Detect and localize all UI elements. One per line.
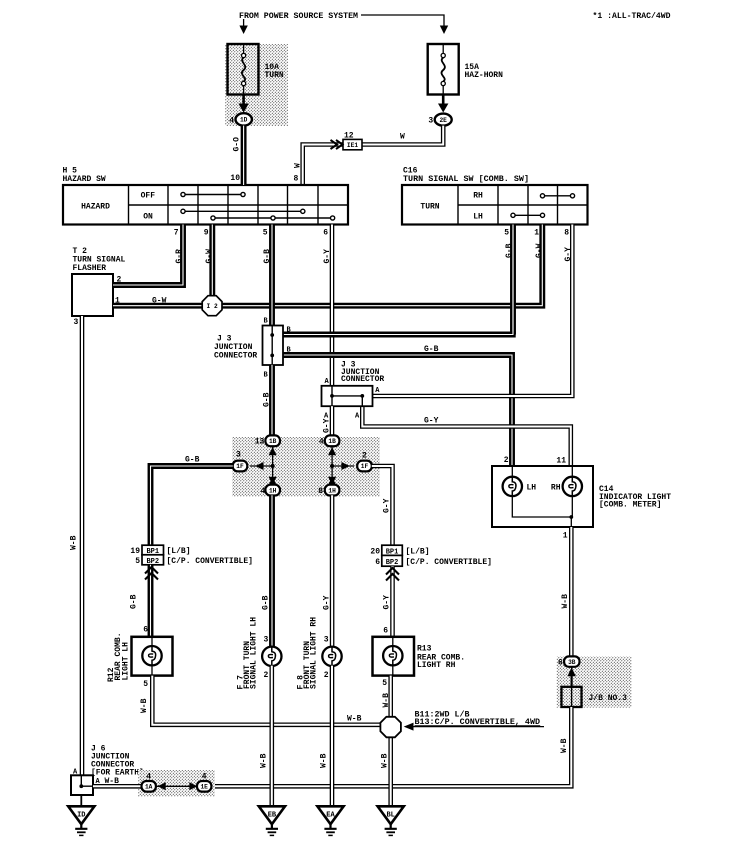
junction connector J3 no1: [263, 326, 284, 366]
svg-text:[FOR EARTH]: [FOR EARTH]: [91, 768, 144, 777]
svg-text:BL: BL: [386, 812, 394, 820]
wire W-B F7 pin2 to ground EB: [269, 666, 274, 806]
svg-text:3: 3: [236, 451, 241, 460]
svg-text:G-Y: G-Y: [383, 498, 392, 513]
svg-text:G-Y: G-Y: [323, 418, 332, 433]
svg-text:3B: 3B: [568, 659, 576, 666]
svg-text:2: 2: [324, 671, 329, 680]
svg-text:2: 2: [504, 456, 509, 465]
svg-text:CONNECTOR: CONNECTOR: [214, 352, 257, 361]
wire G-B J3 lower output to C14 pin2: [283, 355, 512, 466]
C16 RH contacts: [543, 195, 573, 197]
svg-text:W-B: W-B: [140, 698, 149, 713]
svg-text:*1 :ALL-TRAC/4WD: *1 :ALL-TRAC/4WD: [593, 12, 671, 21]
svg-text:W-B: W-B: [382, 693, 391, 708]
wire G-B BP to rear light LH: [148, 565, 154, 637]
connector 1F RH: [357, 461, 372, 472]
svg-text:G-Y: G-Y: [424, 417, 439, 426]
connector 3B: [564, 656, 579, 666]
junction connector J3 no2: [322, 386, 373, 406]
svg-text:5: 5: [382, 679, 387, 688]
junction block J/B NO.3: [562, 687, 582, 707]
wire G-Y hazard pin6 to junction connector J3 no2: [330, 225, 335, 387]
connector 1B LH: [265, 435, 280, 446]
wire G-Y 1F RH to rear light RH via BP: [372, 466, 393, 546]
connector 1D: [236, 113, 252, 125]
svg-text:ON: ON: [143, 213, 153, 222]
svg-text:8: 8: [564, 229, 569, 238]
screen area connector cluster: [232, 437, 380, 497]
svg-text:12: 12: [344, 132, 354, 141]
connector 1H RH: [325, 485, 340, 496]
wire W-B J/B NO.3 down to earth run: [211, 707, 571, 786]
wire G-Y C16 pin8 to J3 no2 right: [373, 225, 572, 397]
svg-text:8: 8: [318, 487, 323, 496]
wire G-Y J3 no2 to connector 1B: [330, 406, 335, 436]
svg-text:J/B NO.3: J/B NO.3: [589, 694, 628, 703]
svg-text:10: 10: [230, 174, 240, 183]
connector 1E: [197, 781, 211, 792]
svg-text:3: 3: [263, 636, 268, 645]
svg-text:11: 11: [556, 457, 566, 466]
svg-text:6: 6: [383, 627, 388, 636]
arrow into fuse 15A: [440, 26, 448, 35]
arrows between 1A and 1E: [157, 785, 197, 787]
svg-text:G-B: G-B: [185, 456, 200, 465]
svg-text:LIGHT LH: LIGHT LH: [122, 642, 131, 681]
wire G-R hazard pin7 to T2 pin2: [113, 225, 183, 286]
svg-text:FLASHER: FLASHER: [73, 264, 107, 273]
node RH: arrows between 1B 1F 1H: [328, 441, 354, 490]
svg-text:W: W: [294, 163, 303, 168]
svg-text:[L/B]: [L/B]: [167, 547, 191, 556]
svg-text:[COMB. METER]: [COMB. METER]: [599, 501, 661, 510]
svg-text:CONNECTOR: CONNECTOR: [341, 375, 384, 384]
hazard switch H5 box: [63, 185, 348, 225]
svg-text:[C/P. CONVERTIBLE]: [C/P. CONVERTIBLE]: [406, 558, 492, 567]
svg-text:W-B: W-B: [320, 753, 329, 768]
svg-text:C16: C16: [403, 166, 418, 175]
arrow fuse to connector 2E: [442, 95, 445, 105]
wire W-B 3B to J/B NO.3: [571, 667, 573, 687]
chevrons BP left: [145, 567, 158, 580]
svg-text:1: 1: [563, 532, 568, 541]
svg-text:6: 6: [143, 626, 148, 635]
rear combination light R12: [132, 637, 173, 676]
svg-text:9: 9: [204, 229, 209, 238]
svg-text:EB: EB: [268, 812, 277, 820]
svg-text:1F: 1F: [236, 463, 244, 470]
svg-text:1: 1: [534, 229, 539, 238]
svg-text:W-B: W-B: [380, 753, 389, 768]
svg-text:[C/P. CONVERTIBLE]: [C/P. CONVERTIBLE]: [167, 557, 253, 566]
svg-text:RH: RH: [473, 191, 483, 200]
connector IE1: [343, 139, 362, 149]
svg-text:1E: 1E: [200, 784, 208, 791]
wire W-B C14 pin1 to connector 3B: [569, 527, 574, 657]
svg-text:TURN: TURN: [265, 71, 284, 80]
svg-text:G-Y: G-Y: [323, 595, 332, 610]
wire G-B J3 no1 to connector 1B: [269, 365, 275, 436]
wire W from 2E to IE1: [362, 126, 443, 145]
svg-text:SIGNAL LIGHT LH: SIGNAL LIGHT LH: [250, 617, 259, 689]
svg-text:4: 4: [202, 773, 207, 782]
svg-text:2: 2: [362, 452, 367, 461]
connector 2E: [435, 114, 452, 126]
svg-text:5: 5: [263, 229, 268, 238]
svg-text:1H: 1H: [328, 487, 336, 494]
svg-text:7: 7: [174, 229, 179, 238]
svg-text:LH: LH: [527, 483, 537, 492]
connector BP1/BP2 right: [382, 545, 403, 567]
node LH: arrows between 1B 1F 1H: [250, 441, 277, 490]
ground EB: [259, 806, 285, 835]
connector BP1/BP2 left: [142, 545, 164, 566]
ground EA: [317, 806, 343, 835]
svg-text:2E: 2E: [439, 117, 447, 124]
hazard ON contacts row2: [213, 217, 333, 219]
svg-text:TURN: TURN: [420, 203, 439, 212]
chevrons BP right: [386, 568, 399, 581]
wire G-O fuse to hazard pin 10: [241, 126, 247, 185]
svg-text:G-B: G-B: [262, 595, 271, 610]
svg-text:W-B: W-B: [347, 715, 362, 724]
svg-text:4: 4: [146, 773, 151, 782]
svg-text:3: 3: [324, 636, 329, 645]
svg-text:R13: R13: [417, 644, 432, 653]
svg-text:G-B: G-B: [263, 392, 272, 407]
svg-text:I 2: I 2: [207, 303, 218, 310]
arrow fuse to connector 1D: [242, 95, 245, 105]
wire W-B F8 pin2 to ground EA: [330, 666, 335, 806]
svg-text:G-B: G-B: [424, 345, 439, 354]
wire G-B hazard pin5 to junction connector J3: [269, 225, 275, 327]
svg-text:BP1: BP1: [146, 548, 159, 556]
svg-text:W-B: W-B: [70, 535, 79, 550]
C16 LH contacts: [513, 214, 543, 216]
svg-text:4: 4: [229, 117, 234, 126]
wire G-W T2 pin1 to splice I2: [113, 303, 203, 309]
svg-text:G-B: G-B: [263, 249, 272, 264]
wire J6 to ground ID: [80, 795, 82, 807]
wire G-Y 1H RH to front turn signal RH: [330, 495, 335, 648]
screen area J/B NO.3: [557, 657, 632, 708]
svg-text:3: 3: [74, 318, 79, 327]
svg-text:W: W: [400, 133, 405, 142]
svg-text:6: 6: [558, 659, 563, 668]
connector 1B RH: [325, 435, 340, 446]
svg-text:G-O: G-O: [233, 137, 242, 152]
svg-text:4: 4: [260, 487, 265, 496]
rear combination light R13: [373, 637, 415, 676]
fuse 10A TURN: [228, 44, 259, 95]
wire G-B J3 upper output: [283, 332, 516, 338]
ground ID: [68, 806, 94, 835]
svg-text:EA: EA: [326, 812, 335, 820]
svg-text:ID: ID: [77, 812, 85, 820]
svg-text:5: 5: [135, 557, 140, 566]
svg-text:1B: 1B: [328, 438, 336, 445]
wire W-B R12 pin5 to splice B11: [152, 676, 381, 725]
ground BL: [378, 806, 404, 835]
svg-text:6: 6: [323, 229, 328, 238]
arrow into fuse 10A: [243, 19, 245, 26]
screen area 1A 1E: [138, 770, 215, 797]
junction connector J6: [71, 775, 93, 795]
svg-text:8: 8: [294, 175, 299, 184]
wire G-W splice I2 to C16 pin1: [221, 225, 542, 306]
wire G-W hazard pin9 to splice I2: [209, 225, 215, 298]
connector 1H LH: [265, 485, 280, 496]
turn signal flasher T2 box: [72, 274, 113, 316]
svg-text:1A: 1A: [145, 784, 153, 791]
svg-text:RH: RH: [551, 483, 561, 492]
wire G-Y BP to rear light RH: [390, 566, 395, 637]
front turn signal light RH F8: [322, 647, 341, 666]
svg-text:5: 5: [143, 680, 148, 689]
svg-text:W-B: W-B: [560, 738, 569, 753]
svg-text:SIGNAL LIGHT RH: SIGNAL LIGHT RH: [310, 617, 319, 689]
splice B11/B13: [380, 717, 401, 738]
wire W-B T2 pin3 to junction connector J6: [80, 316, 85, 775]
wire W-B J6 to 1A: [93, 784, 142, 789]
svg-text:BP2: BP2: [386, 559, 399, 567]
hazard ON contacts row1: [183, 210, 303, 212]
svg-text:G-W: G-W: [535, 243, 544, 258]
svg-text:2: 2: [263, 671, 268, 680]
turn signal switch C16 box: [402, 185, 588, 225]
screen area fuse 10A: [225, 44, 288, 126]
svg-text:LIGHT RH: LIGHT RH: [417, 661, 456, 670]
svg-text:G-B: G-B: [130, 594, 139, 609]
svg-text:13: 13: [255, 438, 265, 447]
splice I2: [202, 296, 222, 316]
wire G-B C16 pin5 to J3 upper output: [510, 225, 516, 335]
svg-text:6: 6: [375, 558, 380, 567]
svg-text:20: 20: [370, 548, 380, 557]
connector 1A: [142, 781, 156, 792]
front turn signal light LH F7: [262, 647, 281, 666]
wire G-B 1F to rear light LH via BP: [151, 466, 233, 546]
svg-text:HAZARD SW: HAZARD SW: [63, 175, 106, 184]
svg-text:LH: LH: [473, 213, 483, 222]
svg-text:OFF: OFF: [141, 191, 156, 200]
arrow into 3B: [570, 676, 572, 687]
svg-text:3: 3: [428, 117, 433, 126]
callout arrow to splice B11: [413, 726, 544, 728]
svg-text:IE1: IE1: [347, 142, 358, 149]
svg-text:W-B: W-B: [260, 753, 269, 768]
svg-text:1H: 1H: [269, 487, 277, 494]
svg-text:1D: 1D: [240, 117, 248, 124]
svg-text:BP1: BP1: [386, 549, 399, 557]
wire G-Y J3 no2 bottom-right to C14 pin11: [362, 406, 571, 466]
svg-text:FROM POWER SOURCE SYSTEM: FROM POWER SOURCE SYSTEM: [239, 12, 358, 21]
svg-text:G-Y: G-Y: [323, 249, 332, 264]
svg-text:HAZARD: HAZARD: [81, 203, 110, 212]
wire W-B R13 pin5 to splice B11: [388, 676, 393, 718]
svg-text:G-W: G-W: [152, 297, 167, 306]
hazard OFF contacts: [183, 194, 243, 196]
svg-text:T 2: T 2: [73, 247, 88, 256]
wire G-B 1H to front turn signal LH: [269, 495, 275, 648]
connector 1F LH: [233, 461, 248, 472]
svg-text:HAZ-HORN: HAZ-HORN: [465, 71, 504, 80]
svg-text:W-B: W-B: [561, 594, 570, 609]
svg-text:TURN SIGNAL SW [COMB. SW]: TURN SIGNAL SW [COMB. SW]: [403, 175, 529, 184]
svg-text:5: 5: [504, 229, 509, 238]
wire W from IE1 to hazard switch pin 8: [303, 145, 343, 186]
svg-text:1F: 1F: [361, 463, 369, 470]
wire power feed to fuse 15A: [361, 15, 444, 26]
chevrons into IE1: [331, 140, 343, 149]
svg-text:19: 19: [130, 547, 140, 556]
indicator light C14: [492, 466, 593, 527]
svg-text:G-Y: G-Y: [564, 247, 573, 262]
fuse 15A HAZ-HORN: [428, 44, 459, 95]
svg-text:G-Y: G-Y: [383, 595, 392, 610]
wire W-B splice B11 to ground BL: [388, 737, 393, 807]
svg-text:4: 4: [319, 438, 324, 447]
svg-text:1B: 1B: [269, 438, 277, 445]
svg-text:H 5: H 5: [63, 166, 78, 175]
svg-text:G-R: G-R: [175, 249, 184, 264]
svg-text:[L/B]: [L/B]: [406, 548, 430, 557]
svg-text:G-W: G-W: [205, 249, 214, 264]
